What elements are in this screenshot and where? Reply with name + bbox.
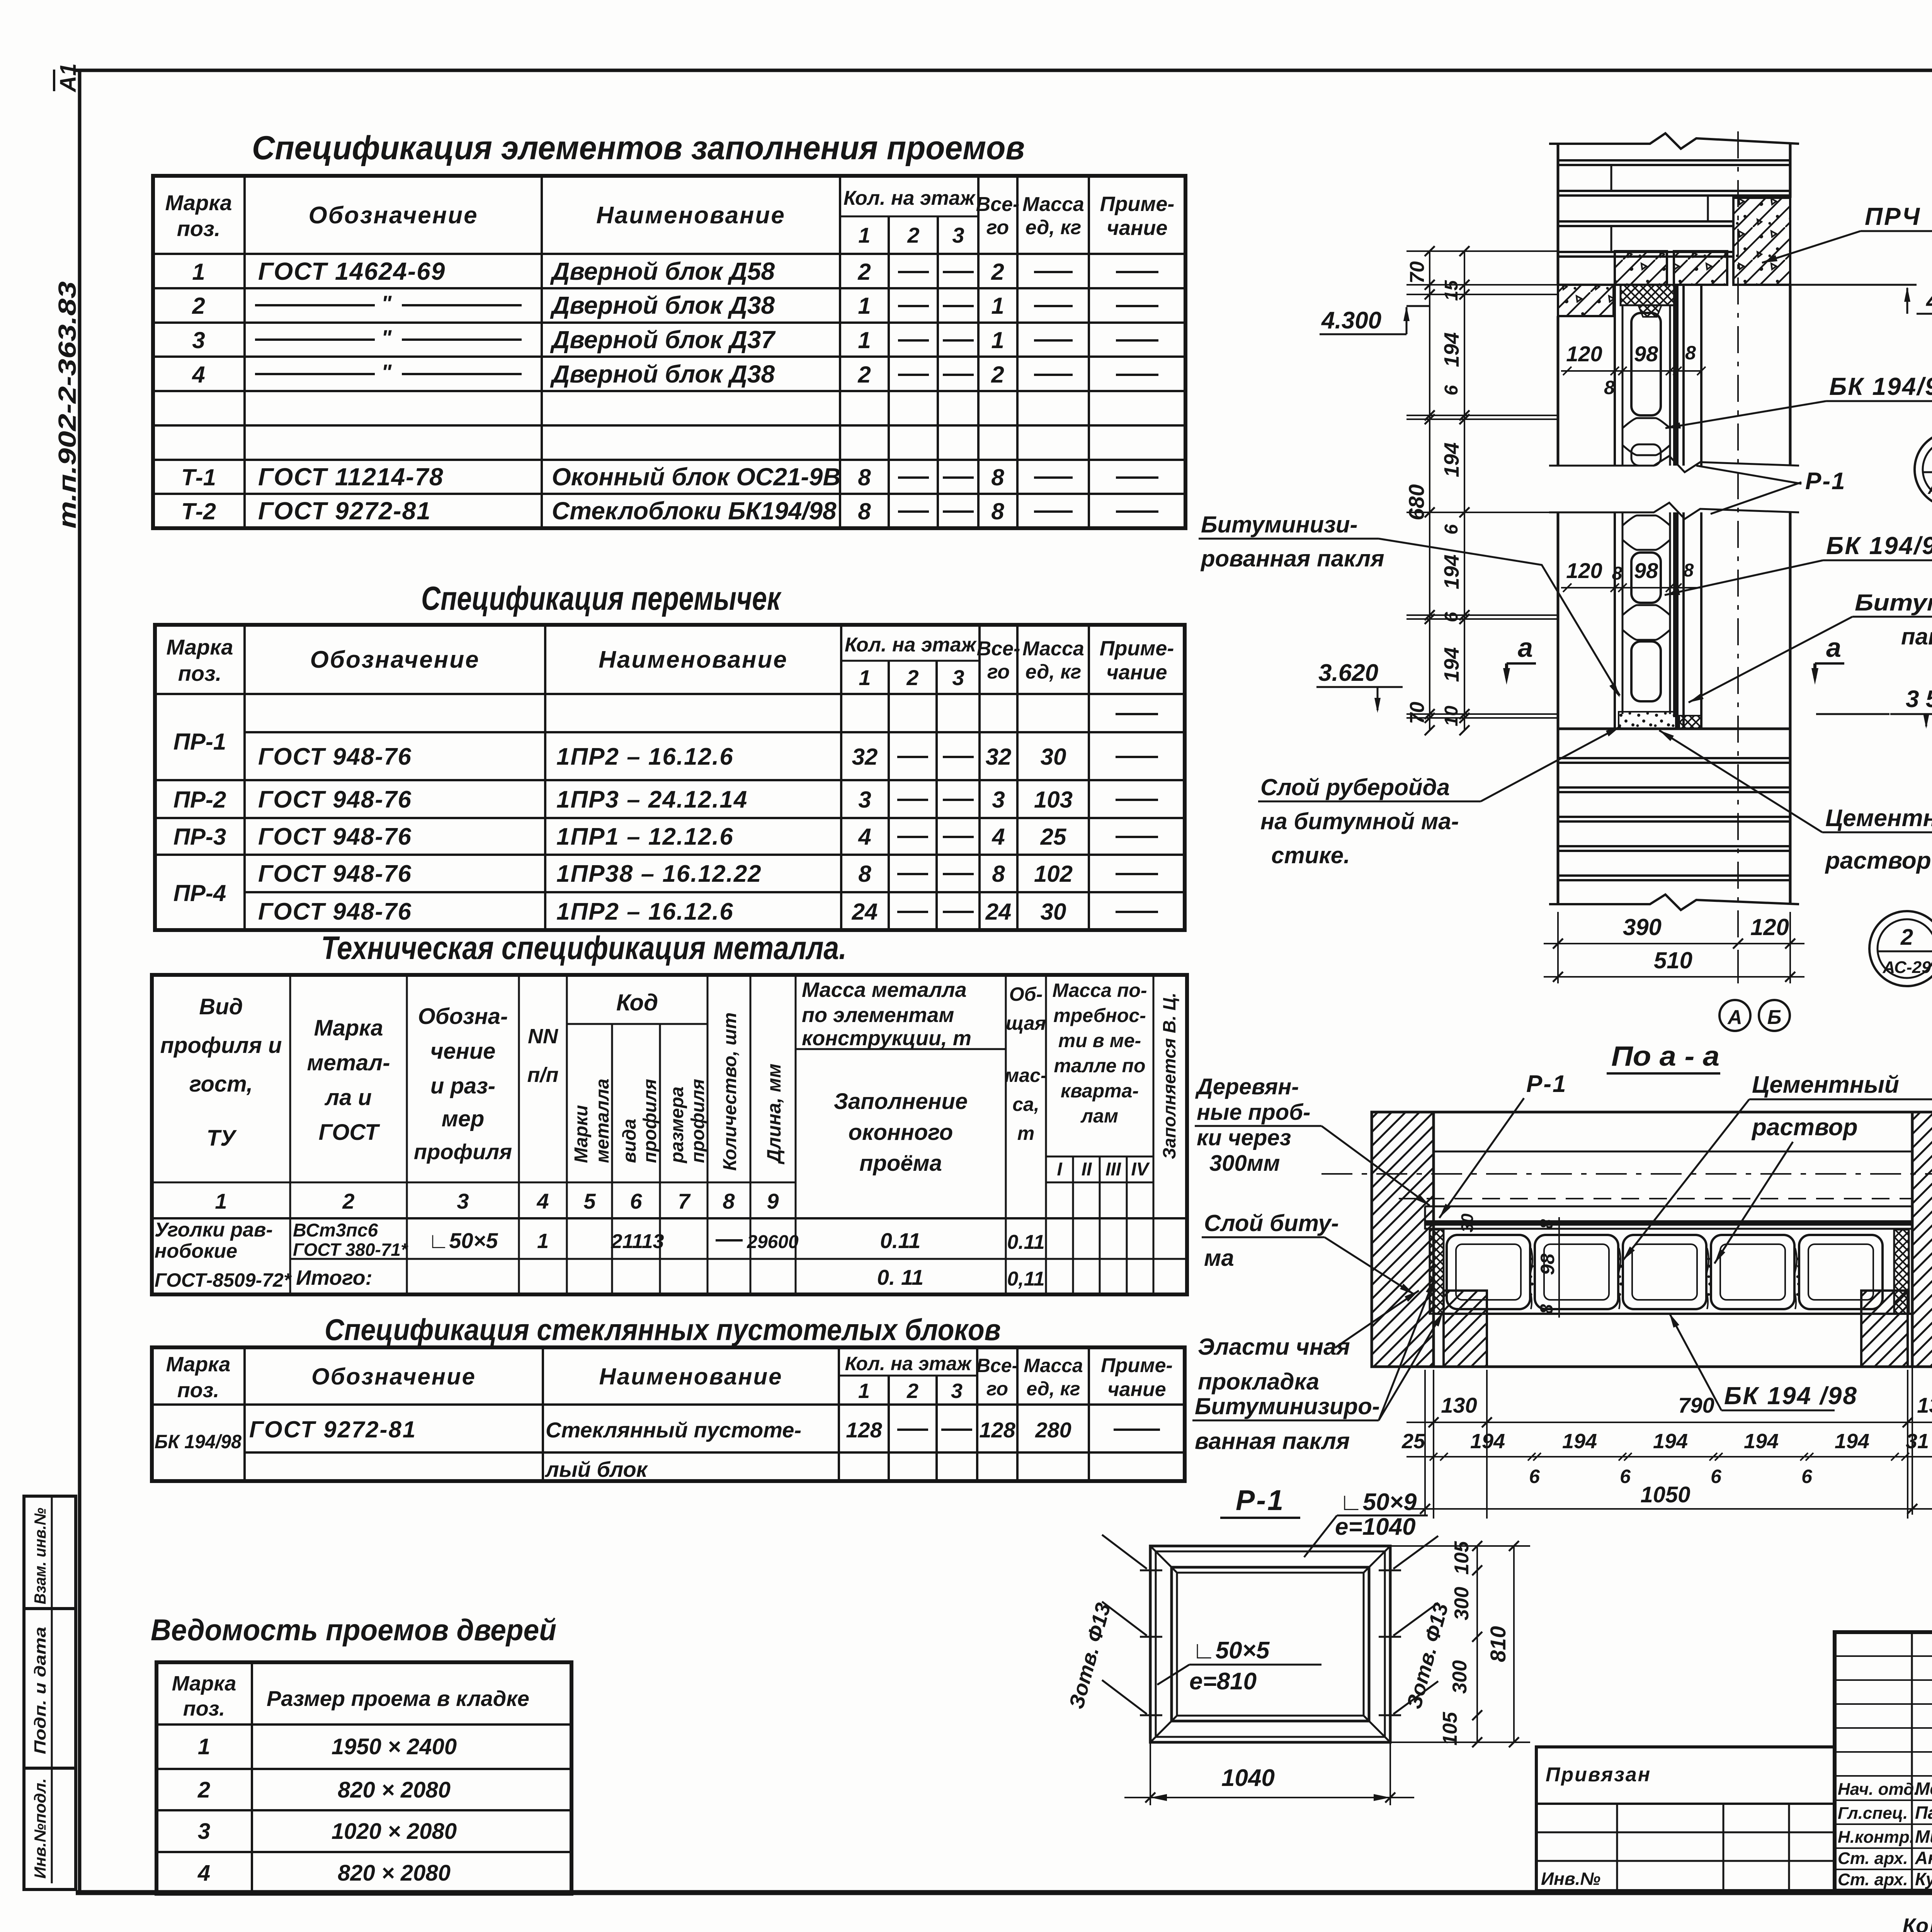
svg-text:п/п: п/п [527, 1063, 559, 1087]
svg-text:Техническая спецификация мет: Техническая спецификация металла. [321, 930, 847, 966]
svg-text:профиля: профиля [688, 1079, 708, 1163]
R-1 frame strip [1425, 1206, 1912, 1207]
glass strip upper section [1614, 285, 1616, 466]
svg-text:поз.: поз. [177, 1379, 219, 1402]
svg-text:Инв.№: Инв.№ [1541, 1869, 1600, 1889]
svg-text:30: 30 [1458, 1213, 1477, 1232]
svg-text:Уголки рав-: Уголки рав- [155, 1219, 273, 1241]
svg-text:оконного: оконного [849, 1120, 953, 1145]
lower glass section [1557, 512, 1560, 729]
svg-text:Кол. на этаж: Кол. на этаж [845, 634, 977, 656]
svg-text:Масса: Масса [1022, 638, 1084, 660]
svg-text:стике.: стике. [1271, 842, 1350, 868]
svg-text:Взам. инв.№: Взам. инв.№ [31, 1508, 49, 1604]
svg-text:Панченко: Панченко [1915, 1803, 1932, 1823]
svg-text:6: 6 [1529, 1466, 1540, 1487]
svg-text:105: 105 [1451, 1541, 1473, 1575]
svg-text:10: 10 [1441, 706, 1462, 726]
svg-text:1950 × 2400: 1950 × 2400 [332, 1734, 457, 1759]
table 2: lintel specification [155, 625, 1185, 930]
svg-text:раствор: раствор [1751, 1114, 1858, 1141]
plan dim chain 25/194x5/31 [1406, 1456, 1932, 1458]
svg-text:Об-: Об- [1009, 983, 1043, 1005]
svg-text:3: 3 [951, 1379, 963, 1403]
left wall hatched [1372, 1112, 1434, 1367]
svg-text:1ПР2 – 16.12.6: 1ПР2 – 16.12.6 [556, 898, 734, 925]
svg-text:8: 8 [858, 861, 871, 887]
svg-text:8: 8 [1536, 1304, 1556, 1314]
svg-text:1: 1 [858, 327, 871, 353]
svg-text:IV: IV [1131, 1159, 1150, 1180]
svg-text:1: 1 [858, 1379, 870, 1403]
svg-text:ПР-4: ПР-4 [173, 880, 226, 906]
svg-text:профиля: профиля [414, 1139, 512, 1164]
svg-text:ВСт3пс6: ВСт3пс6 [293, 1220, 378, 1241]
hole ticks right [1379, 1570, 1401, 1571]
dim 120 8 98 8 lower [1561, 587, 1700, 588]
svg-text:98: 98 [1634, 558, 1658, 583]
lintel face line [1434, 1151, 1912, 1153]
svg-text:6: 6 [1441, 612, 1462, 622]
bottom dims 390/120/510 [1557, 912, 1559, 983]
sill line [1558, 728, 1790, 730]
svg-text:1: 1 [192, 259, 205, 285]
svg-text:поз.: поз. [183, 1697, 225, 1720]
svg-text:Р-1: Р-1 [1805, 468, 1846, 495]
svg-text:102: 102 [1034, 861, 1073, 887]
svg-text:III: III [1105, 1159, 1122, 1180]
svg-text:Дверной блок Д58: Дверной блок Д58 [550, 257, 775, 285]
svg-text:кварта-: кварта- [1061, 1080, 1139, 1102]
svg-text:8: 8 [858, 498, 871, 524]
svg-text:3: 3 [952, 665, 964, 690]
svg-text:194: 194 [1744, 1430, 1779, 1453]
svg-text:ГОСТ 14624-69: ГОСТ 14624-69 [258, 257, 446, 285]
lower R-1 angle [1673, 512, 1679, 717]
svg-text:1040: 1040 [1221, 1765, 1275, 1791]
svg-text:4: 4 [536, 1189, 549, 1213]
svg-text:Нач. отд.: Нач. отд. [1838, 1780, 1919, 1799]
svg-text:2: 2 [857, 362, 871, 388]
svg-text:Дверной блок Д37: Дверной блок Д37 [550, 326, 776, 354]
svg-text:0. 11: 0. 11 [877, 1265, 923, 1289]
svg-text:Заполняется В. Ц.: Заполняется В. Ц. [1159, 993, 1179, 1159]
svg-text:32: 32 [986, 744, 1012, 770]
svg-text:1: 1 [198, 1734, 210, 1759]
end seals [1430, 1230, 1444, 1314]
svg-text:ТУ: ТУ [207, 1126, 237, 1151]
svg-text:1: 1 [858, 293, 871, 319]
lintel PRCH concrete blocks [1615, 251, 1667, 285]
svg-text:Спецификация перемычек: Спецификация перемычек [421, 580, 782, 617]
svg-text:Длина, мм: Длина, мм [763, 1063, 785, 1165]
svg-text:ПРЧ: ПРЧ [1865, 202, 1921, 230]
svg-text:1ПР1 – 12.12.6: 1ПР1 – 12.12.6 [556, 823, 734, 850]
svg-text:Стеклянный пустоте-: Стеклянный пустоте- [546, 1418, 801, 1442]
svg-text:3: 3 [858, 787, 871, 813]
table 5: door openings [156, 1662, 571, 1894]
svg-text:мас-: мас- [1005, 1065, 1047, 1086]
left jamb concrete block [1558, 285, 1614, 316]
svg-text:Слой биту-: Слой биту- [1204, 1210, 1339, 1236]
detail circle 2/AC-29 [1869, 911, 1932, 986]
axis A dash-dot [1321, 1173, 1932, 1175]
svg-text:ПР-2: ПР-2 [173, 787, 226, 813]
elevation 4.370 [1790, 284, 1917, 286]
svg-text:Т-1: Т-1 [181, 464, 216, 490]
svg-text:Масса металла: Масса металла [802, 978, 967, 1002]
svg-text:7: 7 [678, 1189, 691, 1213]
svg-text:Наименование: Наименование [599, 646, 788, 673]
svg-text:на битумной ма-: на битумной ма- [1260, 808, 1459, 834]
svg-text:300: 300 [1451, 1587, 1473, 1621]
small dims 8/98/8 rotated [1558, 1217, 1560, 1318]
svg-text:и раз-: и раз- [430, 1073, 495, 1099]
svg-text:Дверной блок Д38: Дверной блок Д38 [550, 291, 775, 319]
glass block 1 [1631, 313, 1661, 415]
svg-text:Гл.спец.: Гл.спец. [1838, 1804, 1908, 1823]
svg-text:8: 8 [1536, 1219, 1556, 1229]
svg-text:15: 15 [1441, 280, 1462, 301]
svg-text:мер: мер [442, 1106, 485, 1131]
svg-text:раствор: раствор [1825, 847, 1931, 874]
svg-text:": " [381, 325, 392, 350]
svg-text:98: 98 [1537, 1253, 1558, 1275]
bottom-left inventory strip [24, 1496, 76, 1889]
svg-text:профиля: профиля [640, 1079, 660, 1163]
svg-text:6: 6 [1441, 385, 1462, 395]
title block: central signature table [1835, 1632, 1932, 1891]
svg-text:2: 2 [857, 259, 871, 285]
svg-text:Приме-: Приме- [1101, 1354, 1173, 1377]
svg-text:ГОСТ: ГОСТ [318, 1120, 380, 1145]
svg-text:Обозна-: Обозна- [418, 1004, 508, 1029]
svg-text:4: 4 [858, 824, 871, 850]
cut block joint [1622, 515, 1670, 526]
svg-text:АС-29: АС-29 [1928, 479, 1932, 498]
svg-text:ГОСТ 948-76: ГОСТ 948-76 [258, 743, 412, 770]
svg-text:I: I [1057, 1159, 1063, 1180]
svg-text:Все-: Все- [976, 1355, 1018, 1376]
svg-text:ед, кг: ед, кг [1026, 661, 1082, 683]
right inner partition lines [1682, 285, 1685, 466]
svg-text:Т-2: Т-2 [181, 498, 216, 524]
svg-text:98: 98 [1634, 342, 1658, 366]
svg-text:0.11: 0.11 [880, 1228, 921, 1253]
detail circle 1/AC-29 [1915, 432, 1932, 507]
svg-text:510: 510 [1654, 947, 1692, 973]
svg-text:ные проб-: ные проб- [1197, 1100, 1310, 1125]
wooden plugs dashed line [1399, 1198, 1912, 1199]
R-1 bottom dim 1040 [1150, 1742, 1151, 1805]
plan dim 1050 [1424, 1370, 1426, 1515]
svg-text:Марка: Марка [165, 190, 232, 215]
svg-text:т: т [1017, 1122, 1034, 1144]
svg-text:Марка: Марка [167, 635, 233, 659]
svg-text:21113: 21113 [611, 1230, 664, 1253]
table 1: spec of opening elements [153, 176, 1185, 528]
svg-text:А1: А1 [56, 63, 81, 93]
svg-text:нобокие: нобокие [155, 1240, 237, 1262]
svg-text:щая: щая [1006, 1012, 1046, 1034]
svg-text:194: 194 [1562, 1430, 1597, 1453]
svg-text:25: 25 [1040, 824, 1067, 850]
svg-text:рованная пакля: рованная пакля [1200, 546, 1384, 571]
svg-text:го: го [986, 216, 1009, 239]
svg-text:8: 8 [858, 464, 871, 490]
svg-text:ГОСТ 948-76: ГОСТ 948-76 [258, 823, 412, 850]
svg-text:Б: Б [1767, 1006, 1782, 1029]
svg-text:го: го [986, 1378, 1008, 1400]
svg-text:8: 8 [723, 1189, 735, 1213]
svg-text:ки через: ки через [1197, 1125, 1291, 1150]
joint [1622, 605, 1670, 615]
svg-text:чание: чание [1107, 216, 1167, 240]
svg-text:ПР-1: ПР-1 [173, 729, 226, 755]
svg-text:По а - а: По а - а [1611, 1041, 1719, 1072]
svg-text:профиля и: профиля и [160, 1033, 282, 1058]
svg-text:": " [381, 360, 392, 384]
svg-text:Привязан: Привязан [1546, 1764, 1651, 1786]
svg-text:103: 103 [1034, 787, 1073, 813]
svg-text:т.п.902-2-363.83: т.п.902-2-363.83 [53, 281, 81, 529]
title block: left part (Privyazan) [1536, 1747, 1835, 1891]
lower brick courses [1558, 757, 1790, 759]
svg-text:120: 120 [1750, 914, 1789, 940]
svg-text:810: 810 [1486, 1626, 1510, 1662]
svg-text:Ст. арх.: Ст. арх. [1838, 1870, 1908, 1889]
svg-text:∟50×5: ∟50×5 [1192, 1637, 1270, 1664]
svg-text:2: 2 [906, 1379, 918, 1403]
axis circles A B [1719, 1000, 1750, 1031]
svg-text:790: 790 [1678, 1393, 1714, 1417]
svg-text:4: 4 [992, 824, 1005, 850]
svg-text:Копировал:: Копировал: [1903, 1914, 1932, 1932]
svg-text:128: 128 [846, 1418, 882, 1442]
svg-text:чание: чание [1106, 661, 1167, 684]
svg-text:Цементный: Цементный [1752, 1071, 1899, 1098]
svg-text:194: 194 [1440, 554, 1463, 589]
mitred corners [1150, 1546, 1177, 1573]
hole callout right [1393, 1536, 1438, 1569]
svg-text:": " [381, 291, 392, 315]
svg-text:2: 2 [991, 362, 1004, 388]
svg-text:ванная пакля: ванная пакля [1195, 1428, 1350, 1454]
svg-text:194: 194 [1653, 1430, 1688, 1453]
svg-text:∟50×5: ∟50×5 [428, 1228, 498, 1253]
svg-text:ГОСТ 948-76: ГОСТ 948-76 [258, 861, 412, 887]
svg-text:лый блок: лый блок [544, 1457, 648, 1481]
cement mortar bed (dots) [1619, 712, 1676, 729]
svg-text:9: 9 [767, 1189, 779, 1213]
svg-text:2: 2 [1900, 925, 1913, 950]
svg-text:ГОСТ 9272-81: ГОСТ 9272-81 [249, 1417, 417, 1442]
svg-text:300мм: 300мм [1209, 1151, 1280, 1176]
block joint profile [1622, 418, 1670, 428]
svg-text:820 × 2080: 820 × 2080 [338, 1861, 451, 1886]
svg-text:поз.: поз. [177, 216, 221, 241]
svg-text:Мешалкин: Мешалкин [1915, 1779, 1932, 1799]
svg-text:поз.: поз. [178, 661, 222, 685]
svg-text:2: 2 [906, 665, 918, 690]
R-1 right dim chain 105/300/300/105 [1390, 1545, 1530, 1547]
glass blocks row [1447, 1235, 1530, 1309]
svg-text:30: 30 [1041, 899, 1066, 925]
svg-text:194: 194 [1835, 1430, 1869, 1453]
svg-text:1ПР3 – 24.12.14: 1ПР3 – 24.12.14 [556, 786, 748, 813]
svg-text:БК 194 /98: БК 194 /98 [1724, 1382, 1858, 1410]
svg-text:АС-29: АС-29 [1883, 958, 1931, 977]
svg-text:30: 30 [1041, 744, 1066, 770]
svg-text:e=1040: e=1040 [1335, 1514, 1416, 1540]
svg-text:Код: Код [616, 990, 658, 1015]
svg-text:194: 194 [1440, 442, 1463, 477]
svg-text:ГОСТ 11214-78: ГОСТ 11214-78 [258, 463, 444, 491]
svg-text:Кузнецова: Кузнецова [1915, 1869, 1932, 1889]
svg-text:120: 120 [1566, 558, 1602, 583]
svg-text:II: II [1082, 1159, 1092, 1180]
svg-text:Инв.№подл.: Инв.№подл. [31, 1778, 49, 1879]
svg-text:ПР-3: ПР-3 [173, 824, 226, 850]
svg-text:280: 280 [1035, 1418, 1071, 1442]
svg-text:проёма: проёма [859, 1151, 942, 1176]
svg-text:Приме-: Приме- [1100, 192, 1175, 216]
svg-text:680: 680 [1404, 484, 1429, 520]
svg-text:Все-: Все- [977, 638, 1020, 660]
svg-text:а: а [1826, 633, 1841, 663]
svg-text:го: го [987, 661, 1010, 683]
svg-text:Марка: Марка [166, 1353, 231, 1376]
svg-text:Андрианов: Андрианов [1915, 1848, 1932, 1868]
svg-text:Кол. на этаж: Кол. на этаж [844, 187, 976, 209]
svg-text:4.300: 4.300 [1321, 307, 1381, 334]
dim 120 98 8 upper [1561, 370, 1700, 372]
svg-text:8: 8 [1685, 342, 1696, 364]
svg-text:Заполнение: Заполнение [834, 1089, 968, 1114]
plan: top face line [1372, 1111, 1932, 1114]
svg-text:2: 2 [197, 1777, 210, 1803]
svg-text:ма: ма [1204, 1245, 1234, 1271]
svg-text:8: 8 [991, 464, 1004, 490]
axis dash-dot line [1737, 131, 1739, 944]
svg-text:3: 3 [457, 1189, 469, 1213]
svg-text:29600: 29600 [747, 1232, 799, 1252]
svg-text:105: 105 [1439, 1712, 1461, 1746]
glass block 2 (cut) [1631, 444, 1661, 466]
svg-text:Битуминизиро-: Битуминизиро- [1195, 1393, 1380, 1419]
svg-text:А: А [1727, 1006, 1742, 1029]
svg-text:2: 2 [342, 1189, 354, 1213]
upper brick courses [1557, 144, 1560, 285]
svg-text:1: 1 [859, 665, 871, 690]
drawing frame [74, 69, 1932, 72]
svg-text:Дверной блок Д38: Дверной блок Д38 [550, 360, 775, 388]
svg-text:по элементам: по элементам [802, 1003, 954, 1027]
svg-text:Наименование: Наименование [599, 1364, 782, 1389]
svg-text:820 × 2080: 820 × 2080 [338, 1777, 451, 1803]
svg-text:4.370: 4.370 [1925, 288, 1932, 315]
svg-text:1: 1 [858, 223, 870, 247]
svg-text:Итого:: Итого: [296, 1266, 372, 1289]
svg-text:чание: чание [1107, 1378, 1166, 1401]
svg-text:3: 3 [192, 327, 205, 353]
top seal bituminized tow (crosshatch) [1621, 285, 1676, 305]
svg-text:ГОСТ 380-71*: ГОСТ 380-71* [293, 1240, 408, 1260]
svg-text:70: 70 [1406, 702, 1429, 724]
svg-text:8: 8 [991, 498, 1004, 524]
svg-text:120: 120 [1566, 342, 1602, 366]
hole ticks left [1140, 1570, 1162, 1571]
svg-text:31: 31 [1906, 1430, 1929, 1453]
svg-text:1: 1 [991, 327, 1004, 353]
svg-text:Масса по-: Масса по- [1052, 980, 1147, 1001]
svg-text:металла: металла [592, 1078, 613, 1163]
svg-text:ед, кг: ед, кг [1026, 216, 1082, 239]
svg-text:3 550: 3 550 [1906, 686, 1932, 713]
svg-text:Спецификация элементов запол: Спецификация элементов заполнения проемо… [252, 129, 1025, 167]
right wall hatched [1912, 1112, 1932, 1367]
svg-text:ГОСТ-8509-72*: ГОСТ-8509-72* [155, 1269, 292, 1291]
svg-text:∟50×9: ∟50×9 [1339, 1489, 1417, 1515]
svg-text:194: 194 [1440, 647, 1463, 682]
bottom face line [1372, 1366, 1932, 1368]
plan bottom dim chain 130/790/130 [1433, 1370, 1434, 1519]
svg-text:БК 194/98: БК 194/98 [1829, 372, 1932, 400]
glass block 3 [1631, 553, 1661, 603]
svg-text:Кол. на этаж: Кол. на этаж [845, 1353, 972, 1374]
svg-text:метал-: метал- [307, 1050, 390, 1075]
svg-text:6: 6 [630, 1189, 642, 1213]
svg-text:2: 2 [192, 293, 205, 319]
svg-text:Битуминизи-: Битуминизи- [1201, 512, 1358, 537]
svg-text:130: 130 [1917, 1393, 1932, 1417]
svg-text:194: 194 [1440, 332, 1463, 367]
svg-text:e=810: e=810 [1189, 1668, 1257, 1695]
svg-text:194: 194 [1470, 1430, 1505, 1453]
svg-text:а: а [1518, 633, 1533, 663]
svg-text:ГОСТ 948-76: ГОСТ 948-76 [258, 898, 412, 925]
svg-text:70: 70 [1406, 261, 1429, 284]
svg-text:1ПР38 – 16.12.22: 1ПР38 – 16.12.22 [556, 861, 762, 887]
elevation 3.550 [1816, 713, 1889, 715]
svg-text:5: 5 [583, 1189, 596, 1213]
svg-text:конструкции, т: конструкции, т [802, 1027, 971, 1050]
svg-text:Обозначение: Обозначение [308, 202, 478, 229]
svg-text:прокладка: прокладка [1198, 1369, 1319, 1395]
svg-text:ГОСТ 948-76: ГОСТ 948-76 [258, 786, 412, 813]
svg-text:1: 1 [215, 1189, 227, 1213]
svg-text:128: 128 [979, 1418, 1015, 1442]
svg-text:Все-: Все- [976, 193, 1020, 216]
glass block 4 [1631, 641, 1661, 701]
svg-text:3.620: 3.620 [1318, 660, 1378, 686]
svg-text:Приме-: Приме- [1100, 637, 1174, 660]
svg-text:Н.контр.: Н.контр. [1838, 1828, 1914, 1847]
svg-text:Цементный: Цементный [1825, 805, 1932, 832]
R-1 steel angle (blackened) [1673, 285, 1679, 466]
svg-text:Оконный блок ОС21-9В: Оконный блок ОС21-9В [552, 463, 841, 491]
svg-text:ти в ме-: ти в ме- [1058, 1030, 1141, 1051]
svg-text:1: 1 [991, 293, 1004, 319]
svg-text:Масса: Масса [1022, 193, 1084, 216]
svg-text:Деревян-: Деревян- [1195, 1074, 1299, 1099]
svg-text:4: 4 [197, 1861, 210, 1886]
svg-text:гост,: гост, [189, 1071, 253, 1097]
left dimension chains [1429, 251, 1430, 730]
svg-text:талле по: талле по [1054, 1055, 1145, 1077]
svg-text:2: 2 [991, 259, 1004, 285]
svg-text:Битуминизированная: Битуминизированная [1855, 590, 1932, 616]
